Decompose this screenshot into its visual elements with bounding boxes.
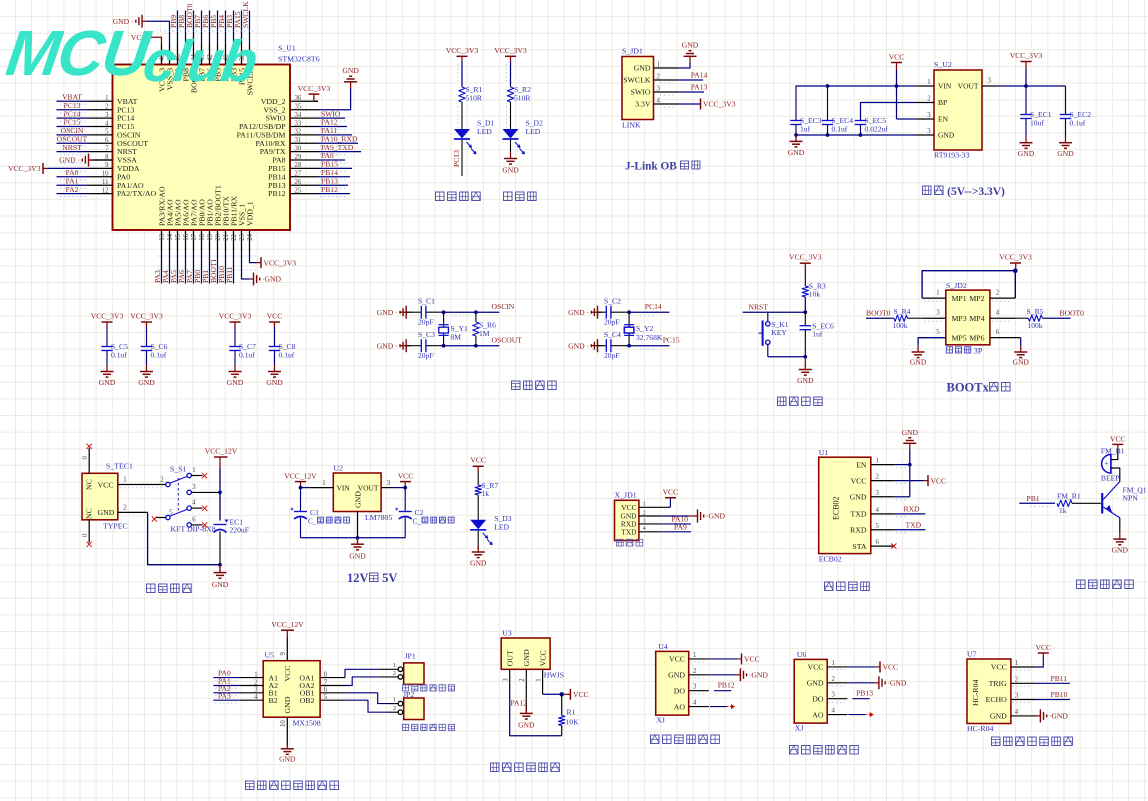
svg-text:PA9: PA9 (674, 523, 687, 532)
no ERC arrow at U6 pin 4 (848, 714, 865, 716)
ground below S_C8 (274, 365, 276, 371)
svg-text:6: 6 (996, 329, 1000, 336)
svg-text:LM7805: LM7805 (365, 513, 392, 522)
junction (859, 133, 863, 137)
pin 35 VSS_2 (290, 109, 318, 111)
svg-text:1: 1 (832, 660, 835, 667)
wire net PA8 (318, 159, 345, 161)
svg-text:3: 3 (936, 310, 940, 317)
svg-text:RXD: RXD (904, 504, 921, 513)
wire (510, 62, 512, 86)
wire net SWIO (318, 117, 345, 119)
svg-text:U7: U7 (967, 650, 977, 659)
wire net VBAT (57, 100, 89, 102)
caption 直流电机驱动模块 (246, 781, 255, 790)
pin 38 PA15 (241, 45, 243, 65)
svg-text:S_R4: S_R4 (894, 307, 911, 316)
svg-text:3: 3 (105, 112, 109, 119)
svg-text:U5: U5 (265, 651, 275, 660)
svg-text:1: 1 (657, 61, 660, 68)
svg-text:1: 1 (936, 290, 939, 297)
svg-text:29: 29 (295, 154, 302, 161)
wire net PC13 (57, 109, 89, 111)
svg-text:GND ·: GND · (568, 341, 589, 350)
ground at S_JD2 pin 5 (918, 338, 946, 346)
svg-text:GND: GND (98, 508, 115, 517)
pin 4 TXD (871, 513, 895, 515)
svg-text:1: 1 (393, 697, 396, 704)
junction (218, 563, 222, 567)
svg-text:24: 24 (247, 233, 254, 240)
svg-text:10k: 10k (809, 290, 821, 299)
svg-text:PC13: PC13 (452, 150, 461, 167)
svg-text:·GND: ·GND (749, 671, 768, 680)
caption 超声波测距模块 (992, 737, 1001, 746)
svg-text:1: 1 (693, 652, 696, 659)
wire net RXD (894, 513, 925, 515)
svg-text:NC: NC (85, 508, 94, 519)
pin 6 (990, 337, 1021, 339)
pin 4 (990, 317, 1015, 319)
svg-text:GND: GND (910, 358, 927, 367)
svg-text:3P: 3P (974, 347, 983, 356)
pin 4 AO (827, 714, 847, 716)
svg-text:ECHO: ECHO (986, 695, 1008, 704)
pin 45 PB8 (185, 45, 187, 65)
svg-text:S_R5: S_R5 (1027, 307, 1044, 316)
pin 4 PC15 (89, 125, 113, 127)
wire net PA5 (177, 251, 179, 284)
svg-text:TXD: TXD (906, 520, 922, 529)
ground below S_D2 (510, 140, 512, 153)
svg-text:EN: EN (856, 460, 867, 469)
svg-text:4: 4 (876, 507, 880, 514)
pin 47 VSS_3 (169, 45, 171, 65)
svg-text:·GND: ·GND (706, 512, 725, 521)
svg-text:VCC_3V3: VCC_3V3 (130, 312, 163, 321)
resistor R1 10K (561, 694, 563, 715)
svg-text:13: 13 (159, 233, 166, 240)
pin 1 (922, 297, 946, 299)
ground pin of U2 (357, 512, 359, 538)
wire net PB9 (177, 11, 179, 45)
wire net PB10 (225, 251, 227, 284)
pin 20 PB2/BOOT1 (217, 230, 219, 251)
caption 电源电路 (147, 584, 156, 593)
svg-text:DO: DO (812, 694, 824, 703)
svg-text:GND: GND (807, 679, 824, 688)
svg-text:FM_B1: FM_B1 (1101, 447, 1125, 456)
pin 2 VCC (871, 480, 895, 482)
svg-text:GND ·: GND · (568, 308, 589, 317)
ground below transistor (1119, 533, 1121, 539)
pin 13 PA3/RX/AO (161, 230, 163, 251)
pin 4 wire net PA9 (639, 531, 661, 533)
wire net PA14 (678, 79, 703, 81)
pin 32 PA11/USB/DM (290, 134, 318, 136)
wire net PA9_TXD (318, 151, 361, 153)
svg-text:XJ: XJ (656, 716, 665, 725)
ground at MCU pin 8 VSSA (93, 159, 113, 161)
svg-text:·GND: ·GND (887, 679, 906, 688)
svg-text:S_S1: S_S1 (170, 465, 187, 474)
svg-text:DO: DO (674, 686, 686, 695)
svg-text:3: 3 (693, 684, 697, 691)
svg-text:GND: GND (938, 131, 955, 140)
svg-text:PB12: PB12 (268, 189, 285, 198)
resistor S_R2 510R (510, 85, 512, 87)
svg-text:3: 3 (1015, 693, 1019, 700)
crystal S_Y2 32.768K (628, 312, 630, 346)
pin 43 PB7 (201, 45, 203, 65)
label 直流电机插座 JP1 (403, 685, 409, 691)
svg-text:5: 5 (105, 129, 109, 136)
svg-text:U3: U3 (502, 629, 512, 638)
pin 4 of switch (187, 506, 191, 510)
junction (627, 310, 631, 314)
pin 26 PB13 (290, 184, 318, 186)
svg-text:+: + (1105, 460, 1109, 468)
svg-text:U1: U1 (819, 448, 829, 457)
svg-text:1: 1 (643, 501, 646, 508)
wire net PA1 (57, 184, 89, 186)
pin 9 VCC wire (286, 637, 288, 661)
wire net PA10_RXD (318, 142, 358, 144)
pin 1 VCC wire to switch (118, 484, 166, 486)
pin 29 PA8 (290, 159, 318, 161)
svg-text:16: 16 (183, 233, 190, 240)
svg-text:STM32C8T6: STM32C8T6 (278, 55, 320, 64)
svg-text:0: 0 (82, 456, 89, 460)
resistor S_R1 510R (461, 85, 463, 87)
svg-text:GND: GND (1012, 358, 1029, 367)
pin 7 NRST (89, 151, 113, 153)
svg-text:3: 3 (192, 484, 196, 491)
svg-text:VCC: VCC (850, 476, 866, 485)
wire net PA11 (318, 134, 352, 136)
svg-text:VCC: VCC (991, 663, 1007, 672)
wire (219, 532, 221, 565)
svg-text:LED: LED (477, 127, 492, 136)
wire net PA13 (678, 91, 704, 93)
svg-text:S_U1: S_U1 (278, 44, 296, 53)
svg-text:ECB02: ECB02 (819, 555, 842, 564)
svg-text:PB12: PB12 (718, 681, 735, 690)
ground at X_JD1 pin 2 (661, 515, 689, 517)
wire pin1 to VCC_3V3 loop (922, 271, 1015, 298)
wire net PB14 (318, 176, 350, 178)
ground below S_EC3 (795, 135, 797, 142)
pin 36 VDD_2 (290, 100, 318, 102)
wire net PB7 (201, 11, 203, 45)
wire GND pin (894, 496, 910, 498)
ground at MCU pin 23 VSS_1 (242, 251, 250, 280)
pin 6 of switch (187, 523, 191, 527)
svg-text:VCC: VCC (1110, 435, 1126, 444)
op-amp U1 MCU S_U1 STM32C8T6 body (113, 65, 291, 231)
label 跳线帽3P (946, 347, 952, 353)
label 直流电机插座 JP2 (403, 724, 409, 730)
pin 1 VCC (827, 666, 847, 668)
svg-text:LINK: LINK (622, 121, 641, 130)
svg-text:6: 6 (105, 137, 109, 144)
svg-text:6: 6 (192, 516, 196, 523)
capacitor C2 electrolytic (404, 488, 406, 512)
svg-text:3: 3 (503, 678, 510, 682)
pin 0 bottom (88, 520, 90, 543)
svg-text:HWJS: HWJS (544, 671, 564, 680)
svg-text:2: 2 (996, 290, 1000, 297)
svg-text:3: 3 (387, 480, 391, 487)
resistor S_R5 100k (1015, 317, 1028, 319)
wire (1072, 502, 1101, 504)
svg-text:VCC: VCC (807, 663, 823, 672)
pin 2 PC13 (89, 109, 113, 111)
svg-text:TXD: TXD (850, 510, 866, 519)
pin 15 PA5/AO (177, 230, 179, 251)
svg-text:VCC_3V3: VCC_3V3 (8, 164, 41, 173)
capacitor S_C5 0.1uf (106, 327, 108, 347)
wire net NRST (57, 151, 89, 153)
svg-text:MCU: MCU (2, 17, 155, 89)
pin 28 PB15 (290, 167, 318, 169)
svg-text:3: 3 (832, 692, 836, 699)
power VCC at U3 (563, 693, 570, 695)
pin 30 PA9/TX (290, 151, 318, 153)
capacitor S_C1 20pF (406, 311, 421, 313)
svg-text:GND: GND (788, 148, 805, 157)
svg-text:VCC_3V3: VCC_3V3 (91, 312, 124, 321)
svg-text:VCC: VCC (398, 472, 414, 481)
svg-text:SWCLK: SWCLK (623, 76, 651, 85)
wire (461, 62, 463, 86)
svg-text:25: 25 (295, 187, 302, 194)
pin 6 OSCOUT (89, 142, 113, 144)
capacitor S_EC1 10uf (1025, 86, 1027, 115)
svg-text:NPN: NPN (1123, 494, 1139, 503)
wire net PB6 (209, 11, 211, 45)
svg-text:GND: GND (99, 378, 116, 387)
wire net PB15 (318, 167, 352, 169)
svg-text:S_JD1: S_JD1 (622, 47, 643, 56)
svg-text:1: 1 (105, 95, 108, 102)
pin 12 PA2/TX/AO (89, 193, 113, 195)
switch S_K1 KEY (767, 312, 769, 321)
wire net BOOT0 right (1045, 317, 1071, 319)
svg-text:VCC_3V3: VCC_3V3 (703, 100, 736, 109)
svg-text:(5V-->3.3V): (5V-->3.3V) (947, 186, 1005, 198)
resistor S_R3 10k (802, 286, 808, 297)
svg-text:VOUT: VOUT (958, 82, 979, 91)
pin 9 VDDA (89, 167, 113, 169)
svg-text:PB10: PB10 (1051, 690, 1068, 699)
junction (826, 133, 830, 137)
svg-text:GND: GND (227, 378, 244, 387)
svg-text:GND: GND (682, 41, 699, 50)
svg-text:30: 30 (295, 145, 302, 152)
wire EN to VIN (896, 86, 898, 119)
junction (442, 344, 446, 348)
svg-text:GND: GND (353, 491, 362, 508)
svg-text:VCC_12V: VCC_12V (284, 472, 317, 481)
svg-text:KEY: KEY (771, 328, 787, 337)
no ERC marker (202, 522, 207, 527)
wire VOUT net (998, 85, 1066, 87)
ground at S_JD2 pin 6 (1020, 338, 1022, 346)
MCUclub logo (1, 17, 261, 94)
svg-text:MP3: MP3 (952, 314, 967, 323)
capacitor S_C7 0.1uf (234, 327, 236, 347)
svg-text:12: 12 (102, 187, 109, 194)
wire rail (219, 467, 221, 520)
svg-text:AO: AO (812, 710, 824, 719)
svg-text:PB1: PB1 (1027, 494, 1040, 503)
pin 46 PB9 (177, 45, 179, 65)
svg-text:STA: STA (852, 542, 866, 551)
svg-text:GND: GND (1112, 546, 1129, 555)
pin 22 PB11/RX (233, 230, 235, 251)
wire GND net (796, 134, 917, 136)
svg-text:VCC_3V3: VCC_3V3 (494, 46, 527, 55)
wire net OSCOUT (57, 142, 89, 144)
svg-text:BOOT0: BOOT0 (1060, 309, 1085, 318)
svg-text:0.1uf: 0.1uf (239, 351, 255, 360)
pin 3 (922, 317, 946, 319)
svg-text:VCC: VCC (883, 663, 899, 672)
svg-text:220uF: 220uF (230, 526, 249, 535)
svg-text:TXD: TXD (621, 527, 637, 536)
svg-text:VCC: VCC (1035, 643, 1051, 652)
wire OUT net PA12 (510, 686, 562, 736)
svg-text:LED: LED (526, 127, 541, 136)
svg-text:VCC: VCC (573, 690, 589, 699)
LED S_D2 (503, 129, 519, 139)
svg-text:GND: GND (850, 493, 867, 502)
svg-text:1: 1 (393, 662, 396, 669)
svg-text:PB12: PB12 (321, 185, 338, 194)
svg-text:VCC: VCC (621, 503, 636, 512)
ground below S_C6 (146, 365, 148, 371)
svg-text:GND: GND (502, 165, 519, 174)
svg-text:0.1uf: 0.1uf (279, 351, 295, 360)
pin 1 of switch (191, 475, 202, 477)
svg-text:3: 3 (927, 112, 931, 119)
ground below U2 (357, 538, 359, 544)
svg-text:club: club (139, 29, 260, 94)
caption 晶振电路 (512, 381, 521, 390)
pin 8 VSSA (89, 159, 113, 161)
power VCC at U6 pin 1 (847, 666, 875, 668)
svg-text:C1: C1 (310, 508, 319, 517)
junction (908, 463, 912, 467)
svg-text:U6: U6 (797, 650, 807, 659)
pin 2 GND (689, 674, 709, 676)
wire net PB1 (209, 251, 211, 284)
svg-text:VDD_1: VDD_1 (245, 201, 254, 226)
pin 3 DO (827, 698, 847, 700)
pin 5 RXD (871, 529, 895, 531)
svg-text:18: 18 (199, 233, 206, 240)
svg-text:AO: AO (674, 702, 686, 711)
svg-text:GND ·: GND · (377, 308, 398, 317)
svg-text:11: 11 (102, 179, 109, 186)
svg-text:2: 2 (927, 96, 931, 103)
svg-text:100k: 100k (1027, 321, 1042, 330)
pin 16 PA6/AO (185, 230, 187, 251)
svg-text:VCC_3V3: VCC_3V3 (219, 312, 252, 321)
pin 3 wire net PA10 (639, 523, 661, 525)
svg-text:2: 2 (105, 103, 109, 110)
svg-text:4: 4 (657, 97, 661, 104)
ground at U7 pin 4 (1036, 715, 1041, 717)
svg-text:1k: 1k (1059, 506, 1067, 515)
svg-text:VCC: VCC (744, 655, 760, 664)
svg-text:VCC: VCC (98, 480, 114, 489)
svg-text:S_TEC1: S_TEC1 (106, 462, 133, 471)
svg-text:26: 26 (295, 179, 302, 186)
svg-text:VOUT: VOUT (358, 483, 379, 492)
svg-text:3: 3 (657, 85, 661, 92)
pin 27 PB14 (290, 176, 318, 178)
junction (1013, 268, 1018, 273)
svg-text:VCC: VCC (663, 488, 679, 497)
svg-text:S_C1: S_C1 (418, 297, 435, 306)
svg-text:5: 5 (936, 329, 940, 336)
capacitor S_C4 20pF (598, 345, 607, 347)
svg-text:VIN: VIN (337, 483, 351, 492)
no ERC marker (87, 444, 92, 449)
pin 4 GND (1011, 715, 1036, 717)
resistor S_R7 1k (475, 485, 481, 495)
svg-text:SWIO: SWIO (631, 88, 651, 97)
wire net NRST (743, 311, 806, 313)
wire net PC15 (57, 125, 89, 127)
svg-text:32: 32 (295, 129, 302, 136)
svg-text:27: 27 (295, 171, 302, 178)
ground below S_D3 (477, 546, 479, 552)
svg-text:GND: GND (522, 649, 531, 666)
svg-text:1: 1 (1015, 660, 1018, 667)
pin 2 (990, 297, 1015, 299)
svg-text:VCC_3V3: VCC_3V3 (264, 258, 297, 267)
capacitor S_EC6 1uf (804, 312, 806, 326)
pin 48 VCC_3 (161, 45, 163, 65)
wire net PB13 (852, 698, 869, 700)
svg-text:TYPEC: TYPEC (103, 522, 128, 531)
svg-text:28: 28 (295, 162, 302, 169)
svg-text:1M: 1M (479, 329, 490, 338)
pin 41 PB5 (217, 45, 219, 65)
svg-text:0.1uf: 0.1uf (1070, 119, 1086, 128)
pin 2 GND (525, 669, 527, 712)
svg-text:1: 1 (876, 458, 879, 465)
wire (477, 495, 479, 520)
pin 18 PB0/AO (201, 230, 203, 251)
pin 3 ECHO (1011, 699, 1036, 701)
svg-text:6: 6 (876, 539, 880, 546)
no ERC marker (152, 517, 157, 522)
svg-text:9: 9 (105, 162, 109, 169)
ground left of S_C3 (400, 345, 406, 347)
svg-text:0.1uf: 0.1uf (111, 351, 127, 360)
LED S_D1 (454, 129, 470, 139)
capacitor S_C2 20pF (598, 311, 607, 313)
svg-text:17: 17 (191, 233, 198, 240)
svg-text:S_C2: S_C2 (604, 297, 621, 306)
svg-text:PA2/TX/AO: PA2/TX/AO (117, 189, 157, 198)
svg-text:VCC_12V: VCC_12V (205, 447, 238, 456)
svg-text:PB11: PB11 (225, 266, 234, 283)
